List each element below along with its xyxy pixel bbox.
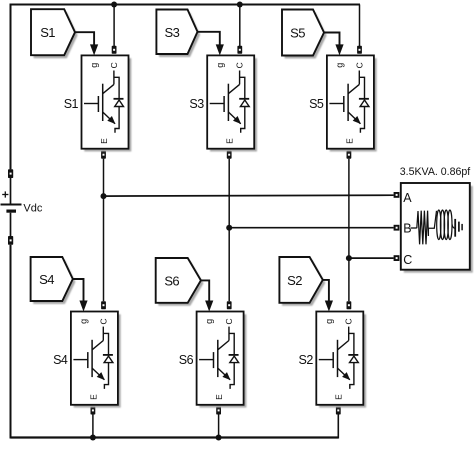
wire: DC- rail up to S2 emitter <box>337 414 339 438</box>
svg-text:E: E <box>225 138 235 144</box>
wire: phase node to load <box>229 227 393 229</box>
wire: top DC+ bus rail <box>10 3 360 5</box>
wire: tag S1 to gate input (with arrow) <box>75 32 94 46</box>
wire: tag S6 to gate input (with arrow) <box>201 280 209 302</box>
wire: DC+ rail to S5 collector <box>359 5 361 47</box>
IGBT/Diode switch block S5 <box>327 55 377 151</box>
wire: tag S2 to gate input (with arrow) <box>323 280 329 303</box>
wire: tag S5 to gate input (with arrow) <box>324 33 340 47</box>
svg-text:S1: S1 <box>40 25 55 40</box>
svg-text:S3: S3 <box>189 97 204 111</box>
IGBT/Diode switch block S3 <box>207 55 257 151</box>
wire: phase node to load <box>349 257 394 259</box>
port: S5 emitter terminal <box>347 151 352 159</box>
node: junction DC- rail / S4 emitter <box>90 435 96 441</box>
port: S2 emitter terminal <box>336 406 341 414</box>
wire: S1 emitter down to phase node <box>103 159 105 196</box>
wire: left vertical from DC+ rail down to Vdc + terminal <box>10 4 12 170</box>
IGBT/Diode switch block S4 <box>71 312 121 408</box>
wire: S6 emitter down to DC- rail <box>218 415 220 438</box>
svg-text:Vdc: Vdc <box>23 203 42 215</box>
wire: bottom DC- bus rail <box>11 436 339 438</box>
svg-text:g: g <box>89 63 99 68</box>
svg-text:C: C <box>98 318 108 324</box>
wire: phase node down to S6 collector <box>228 228 230 302</box>
svg-text:g: g <box>215 63 225 68</box>
port: S6 collector terminal <box>227 301 232 309</box>
three-phase load block 3.5KVA 0.86pf <box>394 166 473 273</box>
from tag S2 <box>279 257 325 306</box>
svg-text:3.5KVA. 0.86pf: 3.5KVA. 0.86pf <box>400 166 471 178</box>
svg-text:g: g <box>79 319 89 324</box>
port: S1 emitter terminal <box>101 151 106 159</box>
svg-text:C: C <box>354 62 364 68</box>
svg-text:C: C <box>403 253 412 267</box>
wire: Vdc + terminal to battery plate <box>10 178 12 204</box>
port: S4 emitter terminal <box>91 406 96 414</box>
svg-text:S2: S2 <box>299 353 314 367</box>
svg-text:S6: S6 <box>179 353 194 367</box>
from tag S4 <box>31 257 76 304</box>
port: S5 collector terminal <box>357 46 362 54</box>
node: phase junction S1/S4 <box>101 193 107 199</box>
svg-text:S5: S5 <box>309 97 324 111</box>
svg-text:g: g <box>204 319 214 324</box>
port: S6 emitter terminal <box>216 406 221 414</box>
svg-text:g: g <box>335 63 345 68</box>
svg-text:E: E <box>214 394 224 400</box>
from tag S5 <box>282 10 327 59</box>
wire: S4 emitter down to DC- rail <box>92 415 94 438</box>
wire: S3 emitter down to phase node <box>228 159 230 228</box>
svg-text:C: C <box>344 318 354 324</box>
svg-text:E: E <box>334 394 344 400</box>
svg-text:B: B <box>403 221 411 235</box>
node: junction DC+ rail / S3 collector <box>237 2 243 8</box>
shadow of DC- rail <box>4 442 342 444</box>
svg-text:C: C <box>109 62 119 68</box>
node: phase junction S5/S2 <box>346 255 352 261</box>
wire: tag S3 to gate input (with arrow) <box>198 32 220 47</box>
svg-text:C: C <box>224 318 234 324</box>
IGBT/Diode switch block S1 <box>82 55 132 151</box>
dc source Vdc: positive plate <box>1 204 22 206</box>
svg-text:E: E <box>88 394 98 400</box>
svg-text:S2: S2 <box>287 273 302 288</box>
port: Vdc - terminal <box>8 236 13 245</box>
svg-text:S6: S6 <box>164 273 179 288</box>
wire: phase node down to S4 collector <box>103 196 105 301</box>
svg-text:g: g <box>324 319 334 324</box>
port: S3 collector terminal <box>237 46 242 54</box>
wire: battery plate to Vdc - terminal <box>10 213 12 237</box>
from tag S6 <box>156 258 204 306</box>
svg-text:S1: S1 <box>64 97 79 111</box>
port: S3 emitter terminal <box>227 151 232 159</box>
wire: DC+ rail to S1 collector <box>113 6 115 47</box>
svg-text:S3: S3 <box>165 25 180 40</box>
IGBT/Diode switch block S6 <box>197 312 247 408</box>
node: junction DC- rail / S6 emitter <box>216 435 222 441</box>
svg-text:S4: S4 <box>53 353 68 367</box>
label: Vdc + polarity sign <box>2 194 8 196</box>
port: Vdc + terminal <box>8 169 13 178</box>
port: S4 collector terminal <box>101 301 106 309</box>
svg-text:C: C <box>235 62 245 68</box>
svg-text:E: E <box>99 138 109 144</box>
node: phase junction S3/S6 <box>226 225 232 231</box>
port: S1 collector terminal <box>112 46 117 54</box>
wire: phase node to load <box>104 194 394 197</box>
svg-text:S4: S4 <box>39 272 54 287</box>
wire: DC+ rail to S3 collector <box>239 6 241 47</box>
wire: S5 emitter down to phase node <box>348 159 350 258</box>
node: junction DC+ rail / S1 collector <box>111 2 117 8</box>
dc source Vdc: negative plate <box>6 210 16 213</box>
svg-text:S5: S5 <box>290 26 305 41</box>
svg-text:E: E <box>344 138 354 144</box>
IGBT/Diode switch block S2 <box>316 312 366 408</box>
svg-text:A: A <box>403 191 412 205</box>
port: S2 collector terminal <box>347 301 352 309</box>
wire: tag S4 to gate input (with arrow) <box>73 279 84 303</box>
wire: Vdc - terminal down to DC- rail <box>10 245 12 439</box>
wire: phase node down to S2 collector <box>348 258 350 301</box>
from tag S1 <box>31 9 78 58</box>
from tag S3 <box>156 10 200 58</box>
